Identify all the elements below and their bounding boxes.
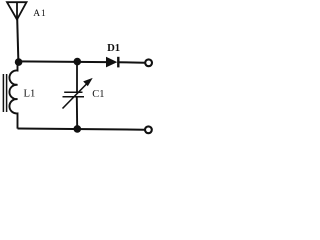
node: junction C1 top xyxy=(74,58,82,66)
terminal: top-right output xyxy=(145,59,152,66)
svg-text:C1: C1 xyxy=(92,89,104,100)
terminal: bottom-right output xyxy=(145,126,152,133)
capacitor C1 (variable) xyxy=(63,62,93,129)
node: junction top-left xyxy=(15,58,23,66)
antenna A1 xyxy=(7,2,27,19)
wire: diode to top terminal xyxy=(118,61,145,64)
wire: top rail left segment xyxy=(18,60,107,63)
diode D1 xyxy=(106,57,118,68)
svg-text:L1: L1 xyxy=(24,88,36,100)
wire: bottom rail xyxy=(18,129,145,130)
core of L1 (two bars) xyxy=(3,74,6,112)
svg-text:D1: D1 xyxy=(107,42,120,54)
inductor L1 xyxy=(9,62,17,129)
svg-text:A1: A1 xyxy=(33,9,46,19)
wire antenna down to node xyxy=(17,19,18,62)
node: junction C1 bottom xyxy=(74,125,82,133)
